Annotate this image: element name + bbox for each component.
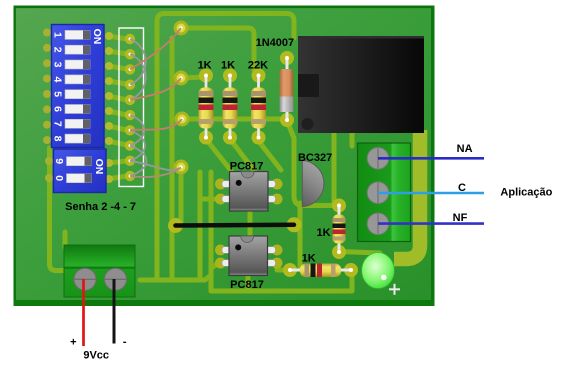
diode D1 1N4007 bbox=[280, 51, 295, 127]
resistor R4 1K vertical bbox=[332, 199, 346, 260]
svg-text:NF: NF bbox=[453, 212, 468, 224]
svg-text:3: 3 bbox=[52, 62, 64, 68]
wire black - bbox=[113, 279, 116, 344]
jumper wires (gray) bbox=[130, 39, 179, 176]
label C line bbox=[378, 192, 484, 195]
pads bbox=[105, 21, 190, 184]
node DIP right pads bbox=[105, 32, 113, 183]
resistor R5 1K horizontal bbox=[283, 263, 358, 277]
node header pads bbox=[125, 34, 135, 181]
wire trace pad1 to 22K bbox=[181, 28, 254, 70]
svg-text:PC817: PC817 bbox=[230, 279, 264, 291]
sliders bbox=[65, 30, 90, 143]
svg-text:1K: 1K bbox=[198, 59, 212, 71]
numbers 1-8 bbox=[52, 32, 64, 142]
svg-text:22K: 22K bbox=[248, 59, 268, 71]
svg-text:2: 2 bbox=[52, 47, 64, 53]
wire trace wide right strip bbox=[394, 130, 420, 259]
svg-text:C: C bbox=[458, 182, 466, 194]
svg-text:1K: 1K bbox=[316, 227, 330, 239]
wire trace header to jumper pad bbox=[170, 38, 175, 280]
wire trace relay to terminal bbox=[350, 133, 355, 146]
svg-text:7: 7 bbox=[52, 121, 64, 127]
svg-text:4: 4 bbox=[52, 76, 64, 82]
svg-text:BC327: BC327 bbox=[298, 152, 332, 164]
pins left bbox=[43, 29, 51, 145]
svg-text:1: 1 bbox=[52, 32, 64, 38]
wire trace power block stub bbox=[63, 232, 68, 247]
svg-text:Aplicação: Aplicação bbox=[500, 187, 552, 199]
svg-text:1K: 1K bbox=[221, 59, 235, 71]
terminal block J1 (power) bbox=[64, 245, 135, 297]
terminal block J2 (relay out) bbox=[358, 143, 411, 242]
node + mark bbox=[389, 284, 400, 295]
relay K1 bbox=[298, 36, 424, 133]
opto U1 PC817 bbox=[215, 172, 283, 212]
label NA line bbox=[378, 157, 484, 160]
svg-text:9: 9 bbox=[53, 158, 65, 164]
jumper wire black bbox=[168, 217, 302, 233]
opto U2 PC817 bbox=[215, 236, 283, 276]
svg-text:6: 6 bbox=[52, 106, 64, 112]
wire trace opto2 right up bbox=[298, 203, 303, 268]
wire trace diag R2 bbox=[230, 139, 256, 173]
wire red + bbox=[82, 279, 85, 346]
svg-text:+: + bbox=[70, 337, 76, 349]
resistor R3 22K bbox=[251, 69, 266, 145]
wire trace left vertical to power block bbox=[50, 148, 67, 271]
wire trace pad4 to jumper pad bbox=[179, 168, 184, 222]
wire trace diag R3 bbox=[257, 139, 281, 170]
resistor R1 1K bbox=[199, 69, 214, 145]
svg-text:Senha 2 -4 - 7: Senha 2 -4 - 7 bbox=[65, 201, 136, 213]
svg-text:-: - bbox=[123, 336, 127, 348]
wire trace pad3 to diode bottom bbox=[182, 117, 287, 122]
resistor R2 1K bbox=[223, 69, 238, 145]
wire trace opto2 bottom stub bbox=[246, 273, 251, 291]
wire trace diode down bbox=[287, 121, 334, 206]
wire trace vert x211 bbox=[209, 172, 214, 291]
svg-text:1N4007: 1N4007 bbox=[256, 37, 295, 49]
traces bbox=[50, 14, 381, 292]
svg-text:NA: NA bbox=[457, 143, 473, 155]
wire trace opto2 left pad link bbox=[277, 264, 290, 270]
jumper wires (salmon) bbox=[130, 28, 182, 177]
wire trace top loop bbox=[157, 14, 294, 281]
white header outline bbox=[119, 28, 144, 187]
DIP switch S1 bbox=[43, 25, 104, 148]
wire trace relay to 1K mid bbox=[332, 133, 337, 203]
node big pads column bbox=[174, 21, 190, 175]
svg-text:0: 0 bbox=[53, 175, 65, 181]
transistor Q1 BC327 bbox=[302, 160, 324, 206]
svg-text:8: 8 bbox=[52, 136, 64, 142]
wire trace DIP row stubs bbox=[108, 36, 127, 39]
wire trace pad2 to R1 bbox=[181, 77, 205, 78]
wire trace bottom h280 bbox=[140, 263, 219, 280]
svg-text:5: 5 bbox=[52, 91, 64, 97]
svg-text:ON: ON bbox=[93, 159, 105, 175]
wire trace vert x200 bbox=[198, 172, 203, 280]
wire trace 1K mid to LED bbox=[339, 252, 380, 254]
wire trace diag R1 bbox=[206, 139, 232, 172]
wire trace opto1 left stub bbox=[200, 197, 216, 202]
wire trace bottom h291 bbox=[211, 272, 352, 291]
PCB board bbox=[14, 6, 435, 307]
svg-text:PC817: PC817 bbox=[230, 161, 264, 173]
LED D2 bbox=[362, 253, 400, 295]
svg-text:1K: 1K bbox=[302, 253, 316, 265]
svg-text:9Vcc: 9Vcc bbox=[83, 350, 109, 362]
svg-text:ON: ON bbox=[91, 29, 103, 45]
DIP switch S2 bbox=[45, 149, 106, 193]
wire trace vert between optos bbox=[248, 208, 253, 238]
label NF line bbox=[378, 222, 484, 225]
